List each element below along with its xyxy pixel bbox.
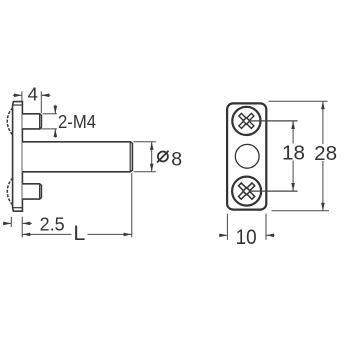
dimension texts (28, 84, 338, 249)
arrowheads (3, 94, 325, 238)
plate corner tangent line top (13, 104, 23, 106)
dim Ø8 ext lines (134, 141, 156, 143)
Ø symbol for Ø8 (157, 151, 169, 163)
screw head arc top (dashed) (7, 108, 12, 135)
dim 10 arrows (219, 234, 227, 238)
screw cross bottom (239, 183, 255, 199)
dim 18 arrows (291, 121, 295, 129)
dim 2.5 arrows (3, 222, 11, 226)
screw head top circle (232, 107, 260, 135)
stud bottom chamfer line (39, 184, 41, 199)
screw stud bottom (22, 184, 41, 199)
plate corner tangent line bottom (13, 207, 23, 209)
plate side view (13, 102, 23, 212)
svg-text:10: 10 (236, 226, 257, 249)
dim 18 line (292, 121, 294, 144)
svg-text:L: L (73, 221, 85, 245)
dim 10 arrow tails (219, 234, 227, 236)
dim 4 arrow tails (13, 94, 22, 96)
dim 18 leader bottom (250, 190, 298, 192)
dim 2-M4 ext lines (43, 113, 58, 115)
plate front view (227, 103, 266, 209)
dimension graphics (4, 91, 329, 240)
dim 10 ext lines (226, 214, 228, 240)
svg-text:2-M4: 2-M4 (58, 112, 96, 132)
dim 2.5 ext lines (10, 217, 12, 227)
dim 28 ext lines (269, 100, 328, 102)
dim 28 line (322, 101, 324, 144)
dim 28 arrows (321, 101, 325, 109)
dim 4 arrows (outside, pointing in) (14, 94, 22, 98)
dim 4 ext line right (40, 91, 42, 113)
pin chamfer line (129, 142, 131, 172)
screw cross top (239, 113, 254, 128)
dim 2-M4 arrow tails (54, 105, 56, 114)
dim Ø8 arrows (inside, pointing out) (150, 142, 154, 150)
screw stud top (22, 114, 41, 129)
right view (227, 103, 266, 209)
dim 18 leader top (250, 120, 298, 122)
svg-text:4: 4 (28, 84, 38, 105)
dim Ø8 line (151, 142, 153, 172)
dim L ext line right (131, 173, 133, 237)
pin body (22, 142, 132, 172)
dim 2.5 arrow tails (4, 222, 12, 224)
svg-text:18: 18 (282, 143, 305, 165)
dim 2-M4 arrows (54, 106, 58, 114)
dim L arrows (22, 233, 30, 237)
svg-text:2.5: 2.5 (40, 213, 65, 234)
stud top chamfer line (39, 114, 41, 129)
screw head bottom circle (232, 177, 261, 206)
dim 4 ext line left (21, 91, 23, 101)
dim L line (22, 233, 71, 235)
pin front circle (235, 144, 259, 168)
svg-text:8: 8 (171, 148, 182, 170)
screw head arc bottom (dashed) (7, 178, 12, 205)
svg-text:28: 28 (314, 143, 337, 165)
